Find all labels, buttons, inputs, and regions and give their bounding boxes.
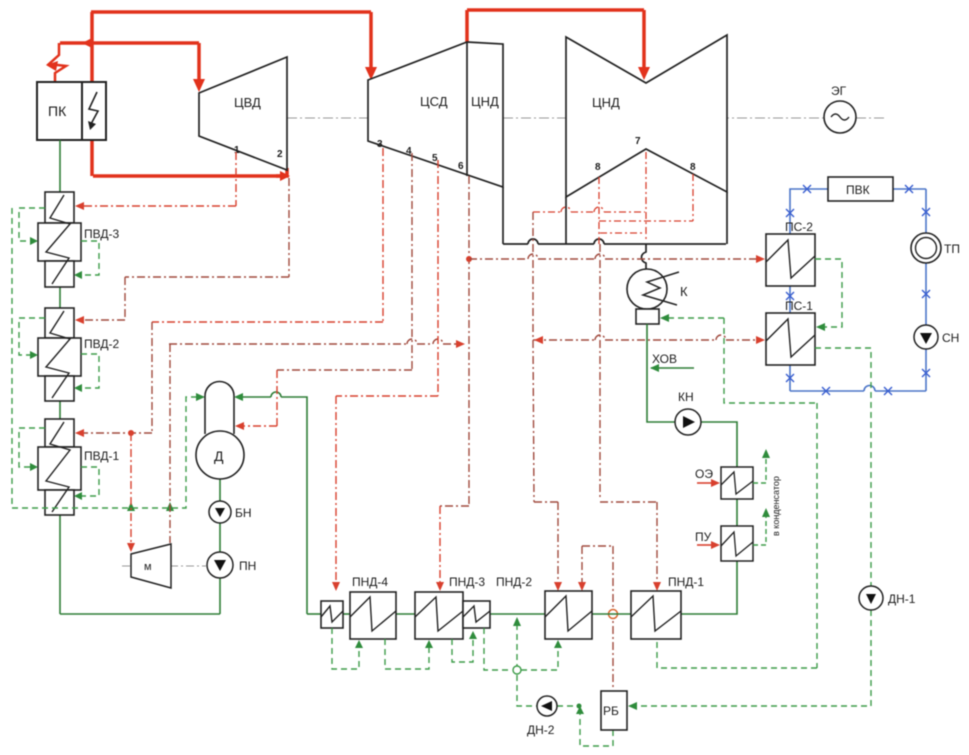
- shaft stub right of generator: [856, 117, 884, 119]
- drain PND3 cascade: [452, 637, 473, 662]
- wire extr8 header: [599, 220, 693, 222]
- wire hot reheat drop to IP: [369, 12, 373, 68]
- arrowhead into LP2 turbine: [638, 67, 650, 80]
- wire TD exhaust riser: [169, 344, 171, 543]
- EXTRACTION 3 to PVD-1 and TD pump: [152, 148, 383, 322]
- LP2 internal extraction piping: [533, 152, 693, 244]
- zigzag OD-4: [321, 606, 343, 622]
- wire y502 header b: [600, 501, 657, 503]
- svg-text:8: 8: [690, 162, 696, 173]
- pump DN-2: [537, 696, 557, 716]
- svg-text:3: 3: [377, 139, 383, 150]
- wire between PN and BN: [219, 523, 221, 552]
- wire extr3 drop to PVD1 level: [151, 322, 153, 433]
- svg-text:м: м: [144, 561, 152, 573]
- drain DN-2 to dot: [557, 705, 578, 707]
- zigzag PVD-3: [46, 195, 70, 284]
- zigzag PND-4: [350, 597, 396, 631]
- EXTRACTION 2 to PVD-2: [80, 178, 289, 320]
- drain header to deaerator: [12, 397, 200, 508]
- wire extr6 drop below slant: [468, 176, 470, 506]
- wire extr5 drop to PND-4: [335, 396, 337, 584]
- heater PND-3: [415, 592, 463, 639]
- heater OE: [721, 467, 753, 499]
- heat consumer TP: [911, 233, 941, 263]
- drain PND4 cascade: [385, 639, 429, 669]
- deaerator tank D: [196, 431, 244, 479]
- drain loop PVD-2 left: [19, 318, 45, 355]
- wire hotwell drop: [647, 324, 675, 422]
- svg-text:ДН-1: ДН-1: [888, 592, 916, 606]
- expander RB: [601, 691, 627, 730]
- svg-text:5: 5: [432, 153, 438, 164]
- PS drains green dashed: [633, 259, 871, 706]
- svg-text:БН: БН: [235, 506, 252, 520]
- condenser hotwell: [636, 309, 659, 324]
- wire PND-2 to OD2: [490, 613, 545, 615]
- extraction point number labels 1-8: [234, 136, 696, 173]
- wire right riser: [925, 189, 927, 391]
- wire main steam down into HP: [197, 43, 201, 80]
- zigzag PVD-1: [46, 422, 70, 512]
- wire extr4 into deaerator: [243, 425, 277, 427]
- junction dot extr6 / PS-2 line: [466, 256, 472, 262]
- wire PND-1 to PND-2: [592, 613, 631, 615]
- vent stubs to condenser: [753, 456, 766, 545]
- svg-text:ЦНД: ЦНД: [592, 95, 620, 110]
- wire feedwater between PVD2-PVD1: [59, 401, 61, 419]
- drain to condenser header: [724, 318, 817, 403]
- svg-text:ОЭ: ОЭ: [695, 467, 713, 481]
- deaerator column: [205, 382, 234, 435]
- wire PS2 to PS1: [789, 286, 791, 313]
- GREEN DASHED DRAIN LINES LEFT: [12, 208, 200, 508]
- svg-text:ДН-2: ДН-2: [527, 723, 555, 737]
- drain RB bottom loop: [580, 709, 613, 746]
- svg-text:ПН: ПН: [239, 559, 256, 573]
- drain bottom run: [657, 667, 817, 669]
- heater PVD-1: [45, 419, 74, 447]
- wire to PVK right: [893, 188, 926, 190]
- hood bottom edge with extraction bumps: [503, 239, 726, 244]
- heater PND-2: [545, 591, 592, 639]
- wire y212 header: [533, 211, 561, 213]
- svg-text:ПНД-2: ПНД-2: [496, 575, 532, 589]
- svg-text:6: 6: [458, 161, 464, 172]
- svg-text:2: 2: [277, 149, 283, 160]
- drain junction to main line riser: [516, 621, 518, 670]
- wire extr4 drop to deaerator: [276, 370, 278, 426]
- wire feedwater boiler drop: [59, 140, 61, 192]
- MAIN RED STEAM LINES: [60, 10, 644, 176]
- svg-text:ПВД-3: ПВД-3: [84, 227, 119, 241]
- wire feed pump riser: [219, 578, 221, 614]
- heater PND-4: [350, 592, 396, 639]
- wire hot reheat top run: [91, 10, 371, 14]
- heater PS-1: [766, 313, 815, 365]
- drain into hotwell: [664, 317, 724, 319]
- wire PS1 bottom drop: [789, 365, 791, 391]
- wire reheat riser at boiler: [90, 12, 94, 176]
- drain riser x817: [816, 403, 818, 668]
- wire y233 stub: [600, 232, 644, 234]
- PVD HEATERS: [38, 192, 81, 515]
- svg-text:ПС-2: ПС-2: [785, 220, 813, 234]
- EXTRACTION 1 to PVD-3: [80, 152, 236, 206]
- wire OE to PU: [736, 499, 738, 526]
- drain loop PVD-3 left: [19, 208, 45, 241]
- svg-text:ЭГ: ЭГ: [831, 84, 847, 98]
- generator EG circle: [824, 101, 856, 133]
- pump BN: [209, 501, 231, 523]
- wire extr3 run left: [152, 321, 383, 323]
- boiler PK box: [37, 82, 82, 140]
- wire extr4 drop from IP: [411, 153, 413, 370]
- pump PN: [207, 552, 233, 578]
- wire BN to deaerator: [219, 470, 221, 501]
- wire extr8 right drop: [692, 174, 694, 221]
- LINE TO PS-1: [533, 212, 756, 340]
- NETWORK WATER BLUE CIRCUIT: [790, 189, 926, 391]
- wire PND-4 to OD4: [343, 613, 350, 615]
- wire extr3 into PVD-1: [80, 432, 152, 434]
- junction dot extr3 branch: [128, 430, 134, 436]
- wire extr2 into PVD-2: [80, 319, 125, 321]
- drain riser to DN-2: [517, 675, 537, 706]
- divider CSD/CND: [466, 42, 468, 176]
- wire cold reheat from HP exhaust: [93, 168, 287, 176]
- turbine drive M: [131, 544, 171, 588]
- svg-text:К: К: [680, 284, 688, 299]
- arrowhead at exhaust extraction junction: [280, 171, 290, 181]
- svg-text:КН: КН: [678, 390, 694, 404]
- wire x534 drop from PS1 line: [533, 340, 534, 502]
- svg-text:ПВД-2: ПВД-2: [84, 337, 119, 351]
- wire crossover top run: [467, 8, 644, 12]
- svg-text:8: 8: [595, 162, 601, 173]
- arrowheads PVD loops: [30, 237, 205, 511]
- deaerator inlet green from condensate: [239, 392, 307, 614]
- svg-text:ПНД-1: ПНД-1: [668, 575, 704, 589]
- heater PS-2: [766, 234, 815, 286]
- wire x600 long drop: [599, 244, 601, 500]
- arrowhead into boiler reheat: [82, 38, 92, 48]
- heater PVD-2: [45, 308, 74, 338]
- drain OD2 down: [484, 628, 512, 670]
- svg-text:ПНД-3: ПНД-3: [449, 575, 485, 589]
- boiler superheater box: [82, 82, 106, 140]
- svg-text:ПВД-1: ПВД-1: [84, 449, 119, 463]
- wire XOV inlet: [651, 367, 694, 369]
- svg-text:РБ: РБ: [603, 704, 619, 718]
- LP2 hood side left: [565, 197, 567, 244]
- wire crossover drop to LP2: [642, 10, 646, 68]
- wire extr2 drop: [124, 277, 126, 320]
- turbine HP cylinder CVD: [199, 57, 287, 170]
- green arrowheads PND: [355, 617, 584, 714]
- arrowhead at x533 junction: [534, 336, 543, 344]
- junction dot DN-2 line: [577, 704, 582, 709]
- red lightning fuel symbol at boiler: [49, 43, 66, 81]
- wire crossover riser: [465, 10, 469, 42]
- junction circle drains: [513, 666, 521, 674]
- wire extr2 drop from HP exhaust: [288, 178, 290, 277]
- svg-text:ПНД-4: ПНД-4: [352, 575, 388, 589]
- drain run to PND2 stub: [521, 646, 558, 670]
- wire OD2 to PND-3: [462, 613, 464, 615]
- IP/LP1 cylinder casing: [368, 42, 503, 187]
- svg-text:ПУ: ПУ: [695, 530, 712, 544]
- wire bottom run: [790, 390, 864, 392]
- wire extr1 run to PVD-3: [80, 205, 236, 207]
- drain cooler OD-4: [321, 601, 343, 628]
- zigzag PND-2: [545, 596, 592, 631]
- drain loop PVD-3 right: [78, 241, 99, 275]
- svg-text:ТП: ТП: [944, 242, 960, 256]
- wire feedwater below PVD1: [59, 515, 61, 614]
- black lightning in superheater: [89, 92, 98, 124]
- wire y546 link: [582, 545, 613, 547]
- svg-text:ПВК: ПВК: [846, 183, 870, 197]
- PND HEATERS: [321, 591, 681, 639]
- drain DN-1 to RB: [633, 610, 871, 706]
- CONDENSATE GREEN: [307, 324, 737, 614]
- wire stub exhaust junction: [276, 174, 281, 178]
- wire extr4 run left: [277, 369, 412, 371]
- svg-text:ЦНД: ЦНД: [471, 94, 499, 109]
- drain PND-1 stub: [656, 640, 658, 668]
- arrowhead drains up at 131: [127, 502, 135, 511]
- svg-text:ПС-1: ПС-1: [785, 299, 813, 313]
- wire feedwater bottom run: [60, 613, 220, 615]
- svg-text:Д: Д: [214, 448, 224, 464]
- svg-text:7: 7: [635, 136, 641, 147]
- condenser neck: [642, 244, 647, 270]
- heater PU: [721, 526, 753, 561]
- svg-text:в конденсатор: в конденсатор: [771, 476, 781, 536]
- wire OD4 to riser: [307, 613, 321, 615]
- wire extr6 jog: [440, 505, 469, 507]
- pump DN-1: [859, 586, 883, 610]
- wire branch to turbine drive: [130, 433, 132, 545]
- wire drop to RB: [612, 546, 614, 688]
- FEEDWATER GREEN LINE: [60, 140, 220, 614]
- wire y502 header a: [534, 501, 558, 503]
- drain cooler OD-2: [463, 601, 490, 628]
- turbine drive shaft line: [122, 565, 206, 567]
- wire drop to PND-2 a: [557, 502, 559, 584]
- svg-text:4: 4: [406, 146, 412, 157]
- PND drains green dashed: [332, 621, 613, 746]
- wire drop to PND-1: [656, 502, 658, 584]
- drain loop PVD-1 right: [78, 467, 99, 496]
- wire extr8 left drop: [598, 177, 600, 244]
- condenser K: [627, 269, 667, 309]
- EXTRACTION TO PND-1 / PND-2 / RB: [533, 244, 657, 688]
- svg-text:1: 1: [234, 145, 240, 156]
- wire extr6 drop to PND-3: [439, 506, 441, 584]
- arrowhead into deaerator left: [196, 393, 205, 401]
- wire extr5 drop: [437, 160, 439, 396]
- red arrow into OE: [697, 482, 712, 484]
- wire PVK left to PS2: [790, 189, 828, 234]
- svg-text:ПК: ПК: [48, 103, 67, 119]
- pump KN: [675, 409, 701, 435]
- LP2 bowtie cylinder: [566, 35, 727, 197]
- peak boiler PVK: [828, 177, 893, 201]
- red arrow into PU: [697, 544, 712, 546]
- LP2 hood side right: [726, 192, 728, 244]
- wire main steam horizontal to HP turbine: [60, 41, 199, 45]
- wire extr5 run left: [336, 395, 438, 397]
- zigzag PVD-2: [46, 311, 70, 398]
- wire extr7 center drop: [645, 152, 647, 242]
- wire drop to PND-2 b: [581, 546, 583, 584]
- LINE TO PS-2: [469, 254, 756, 259]
- turbine shaft line: [287, 117, 824, 119]
- zigzag PND-1: [631, 596, 681, 631]
- wire PU down and to PND-1: [681, 561, 737, 614]
- drain long left header: [11, 208, 13, 508]
- zigzag OD-2: [463, 606, 490, 622]
- heater PVD-3: [45, 192, 74, 223]
- wire extr2 run left: [125, 276, 289, 278]
- arrowhead into HP turbine: [193, 79, 205, 92]
- valve X marks on network water line: [786, 185, 930, 395]
- EXTRACTION 4 to deaerator: [277, 153, 412, 370]
- drain OD4 down: [332, 628, 359, 669]
- arrowhead drains up at 170: [166, 502, 174, 511]
- wire KN to OE: [701, 422, 737, 467]
- EXTRACTION 5 to PND-4: [336, 160, 438, 584]
- drain PS2 to PS1: [815, 259, 842, 327]
- drain PS1 to DN-1: [815, 348, 871, 586]
- EXTRACTION 6: [440, 176, 469, 506]
- wire extr3 drop from IP: [382, 148, 384, 322]
- svg-text:ЦВД: ЦВД: [234, 95, 261, 110]
- LP1 exhaust hood sides: [502, 187, 504, 244]
- arrowhead into IP turbine: [365, 67, 377, 80]
- heater PND-1: [631, 591, 681, 639]
- crossing circle on condensate line: [609, 610, 618, 619]
- wire extr1 drop: [235, 152, 237, 206]
- svg-text:ЦСД: ЦСД: [420, 94, 448, 109]
- wire feedwater between PVD3-PVD2: [59, 287, 61, 308]
- zigzag PND-3: [415, 597, 463, 631]
- svg-text:ХОВ: ХОВ: [652, 352, 677, 366]
- wire TD exhaust run right: [169, 339, 456, 344]
- wire PND-3 to PND-4: [396, 613, 415, 615]
- svg-text:СН: СН: [942, 331, 959, 345]
- drain loop PVD-2 right: [78, 354, 99, 388]
- wire extr x533 drop: [532, 212, 534, 340]
- drain loop PVD-1 left: [19, 428, 45, 467]
- pump SN: [914, 325, 938, 349]
